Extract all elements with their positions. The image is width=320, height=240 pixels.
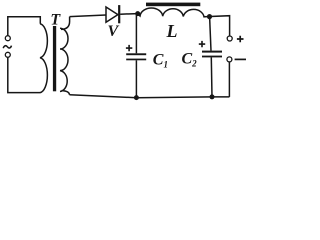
AC source tilde [3, 46, 11, 49]
wire secondary top lead [61, 17, 70, 30]
capacitor C1 top plate [126, 53, 146, 55]
C2 junction dot [210, 94, 215, 99]
svg-text:L: L [166, 21, 178, 41]
wire output bottom lead [228, 62, 230, 97]
wire C1 to bottom rail [135, 60, 137, 97]
diode V triangle [106, 7, 118, 22]
wire diode to node A [120, 13, 138, 16]
capacitor C2 bottom plate [202, 56, 222, 58]
wire node A to C1 [135, 14, 137, 54]
node A junction dot [135, 11, 140, 16]
node B junction dot [207, 14, 212, 19]
wire AC top lead [8, 17, 41, 36]
terminal input bottom [5, 52, 10, 57]
wire AC bottom lead [8, 58, 41, 93]
transformer T secondary winding [60, 28, 68, 91]
inductor L core bar [146, 3, 200, 7]
svg-text:V: V [108, 23, 120, 40]
wire secondary to diode [70, 15, 106, 17]
wire secondary bottom lead [62, 91, 70, 95]
wire bottom rail [70, 95, 230, 98]
inductor L winding [138, 8, 207, 17]
C1 junction dot [134, 95, 139, 100]
transformer T core [53, 26, 56, 91]
wire node B to C2 [210, 17, 211, 51]
capacitor C1 bottom plate [126, 59, 146, 61]
wire node B to output top [207, 16, 230, 36]
C1 polarity plus [126, 45, 132, 51]
diode V cathode bar [118, 5, 120, 23]
wire C2 to bottom rail [210, 57, 213, 97]
minus sign output [235, 58, 246, 60]
terminal output bottom [227, 57, 232, 62]
C2 polarity plus [199, 41, 205, 47]
svg-text:T: T [50, 12, 61, 29]
terminal input top [5, 36, 10, 41]
terminal output top [227, 36, 232, 41]
plus sign output [237, 36, 244, 43]
capacitor C2 top plate [202, 51, 222, 53]
transformer T primary winding [40, 24, 47, 93]
